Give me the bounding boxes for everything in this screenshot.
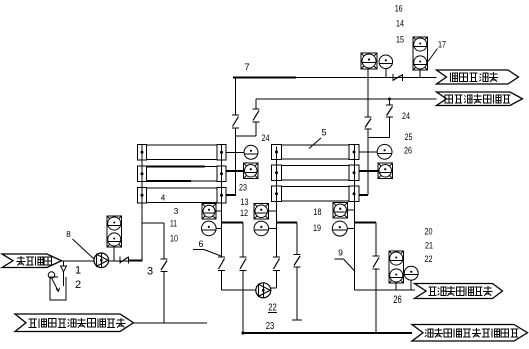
vessel V2 bold top edge [147, 166, 205, 168]
leader for 6 [193, 250, 221, 257]
label 15 [396, 35, 404, 46]
stack D stem [395, 283, 397, 290]
instrument on stage2 row2 tap [378, 163, 393, 179]
arrow into tank [61, 266, 67, 272]
banner2 text [445, 94, 510, 103]
stage2 feed header upper [276, 147, 278, 258]
svg-text:19: 19 [313, 223, 321, 234]
label 12 [240, 208, 248, 219]
stage1 permeate riser to product line [235, 78, 237, 116]
svg-text:8: 8 [66, 230, 71, 239]
pressure gauge on product line [379, 55, 393, 78]
instrument stack A box [202, 204, 216, 220]
label 20 [425, 227, 433, 238]
instrument stack B gauge [254, 221, 269, 236]
stack C gauge stub [347, 228, 354, 230]
svg-text:15: 15 [396, 35, 404, 46]
label 24 right [402, 111, 410, 122]
stack A box stub [216, 210, 222, 212]
membrane vessel V6 (stage 2, row 3) [272, 186, 360, 202]
tee stage1 to drain [222, 222, 244, 224]
svg-text:18: 18 [314, 207, 322, 218]
stack B gauge stub [269, 227, 277, 229]
instrument stack C box [333, 203, 348, 219]
stage1 row3 tap line [227, 194, 237, 196]
riser from second product line (right) [389, 99, 391, 105]
feed gauges stem [113, 247, 115, 261]
svg-text:16: 16 [395, 4, 403, 15]
to concentrate recovery banner [415, 284, 503, 299]
stem of instrument 17 [419, 70, 421, 78]
label 3 small [174, 206, 179, 216]
label 22 underlined [268, 303, 277, 314]
product line 7 [296, 77, 437, 79]
instrument stack B box [254, 204, 269, 220]
check valve on product line [393, 74, 403, 81]
inlet banner (low-temp water in) [2, 254, 62, 268]
leader for 8 [73, 239, 95, 259]
leader for 17 [428, 49, 438, 62]
svg-text:3: 3 [174, 206, 179, 216]
stack A gauge stub [216, 227, 221, 229]
svg-text:6: 6 [198, 239, 203, 249]
svg-text:24: 24 [402, 111, 410, 122]
label 10 [170, 234, 178, 245]
label 25 right [405, 132, 413, 143]
valve on drain x376 [373, 256, 380, 269]
interstage pump 22 [256, 283, 271, 298]
junction dot on second product line [388, 98, 391, 101]
feed gauges stack [107, 216, 122, 247]
membrane vessel V2 (stage 1, row 2) [138, 166, 227, 182]
svg-text:21: 21 [425, 241, 433, 252]
label 1 [75, 265, 81, 277]
valve on stage2 feed header [273, 257, 280, 271]
capped drain lower [296, 267, 298, 320]
cap at drain end [292, 319, 302, 321]
instrument on stage1 row2 tap [244, 163, 259, 179]
drain line x376 upper [375, 223, 377, 257]
label 6 [198, 239, 203, 249]
riser from second product line (left) [255, 99, 257, 109]
gauge by stack D [404, 266, 418, 280]
stage1 concentrate header upper [221, 145, 223, 258]
bottom return line [243, 332, 412, 334]
to desalted water pool banner [437, 70, 519, 84]
svg-text:13: 13 [241, 197, 249, 208]
stage2 row3 tap line [359, 194, 369, 196]
membrane vessel V4 (stage 2, row 1) [272, 145, 360, 160]
banner1 text [450, 72, 498, 82]
instrument stack A gauge [202, 221, 217, 236]
to chemical clean tank banner [437, 92, 523, 106]
stage1 permeate node [236, 135, 257, 137]
svg-text:26: 26 [393, 294, 402, 306]
label 11 [170, 219, 177, 230]
label 9 [338, 248, 343, 258]
stage1 conc elbow to pump [222, 271, 256, 291]
svg-text:9: 9 [338, 248, 343, 258]
svg-text:7: 7 [244, 62, 249, 73]
label 7 [244, 62, 249, 73]
label 18 [314, 207, 322, 218]
valve on stage1 permeate riser [232, 115, 239, 128]
valve on right second riser [386, 105, 393, 117]
stage2 conc elbow [355, 289, 416, 291]
flow indicator on product line [361, 53, 377, 69]
clean drain vertical lower [163, 272, 165, 323]
chemical clean inlet banner text [29, 318, 126, 328]
clean drain vertical upper [163, 223, 165, 259]
gauge D stem [410, 280, 412, 290]
svg-text:1: 1 [75, 265, 81, 277]
stage2 row1 tap line [359, 151, 378, 153]
svg-text:4: 4 [161, 194, 166, 203]
tee stage2feed to capped drain [277, 222, 298, 224]
valve on capped drain [294, 255, 301, 268]
svg-text:23: 23 [266, 320, 275, 332]
label 21 [425, 241, 433, 252]
label 4 [161, 194, 166, 203]
label 5 [321, 128, 326, 138]
stage2 row2 tap line [359, 170, 379, 172]
tee stage2conc to drain [355, 222, 377, 224]
membrane vessel V5 (stage 2, row 2) [272, 165, 360, 181]
stage2 feed header lower [276, 271, 278, 289]
svg-text:26: 26 [404, 146, 412, 157]
label 24 left [262, 133, 270, 144]
stage1 concentrate header lower [221, 271, 223, 291]
banner3 text [429, 286, 493, 296]
stage1 row1 tap line [227, 151, 245, 153]
svg-text:11: 11 [170, 219, 177, 230]
valve on stage1 concentrate drop [218, 257, 225, 271]
junction dot bottom left [241, 331, 244, 334]
label 19 [313, 223, 321, 234]
valve on left second riser [253, 109, 260, 122]
label 16 [395, 4, 403, 15]
label 17 [438, 40, 446, 51]
label 2 [75, 279, 81, 291]
clean inlet line [134, 322, 208, 324]
left second riser lower [255, 122, 257, 136]
svg-text:22: 22 [425, 254, 433, 265]
instrument stack D [389, 251, 404, 283]
dosing tank [50, 277, 66, 300]
svg-text:14: 14 [396, 19, 404, 30]
label 3 big [147, 266, 153, 278]
label 23 small [239, 183, 247, 194]
stage2 permeate header [367, 129, 369, 195]
product line 7 bold segment [233, 77, 296, 79]
stage1 permeate header [235, 128, 237, 195]
stage2 permeate riser to product line [367, 69, 369, 117]
valve 3 on clean drain [161, 259, 168, 272]
second product line [256, 98, 437, 100]
drain line x243 upper [242, 223, 244, 258]
svg-text:17: 17 [438, 40, 446, 51]
banner4 text [425, 328, 518, 337]
capped drain upper [296, 223, 298, 255]
svg-text:24: 24 [262, 133, 270, 144]
tank inner pipe [63, 272, 65, 286]
valve on drain x243 [240, 257, 247, 271]
drain line x243 lower [242, 271, 244, 334]
leader for 5 [309, 138, 321, 149]
to chemical clean return banner [412, 325, 528, 342]
feed pump discharge [109, 260, 129, 262]
drain line x376 lower [375, 269, 377, 333]
leader for 9 [335, 259, 356, 272]
chemical clean inlet banner [15, 314, 134, 332]
label 14 [396, 19, 404, 30]
svg-text:10: 10 [170, 234, 178, 245]
stack B box stub [269, 210, 277, 212]
label 26 big [393, 294, 402, 306]
gauge on stage2 row1 tap [377, 144, 392, 159]
stage2 permeate node [368, 137, 390, 139]
membrane vessel V3 (stage 1, row 3) [138, 188, 227, 204]
svg-text:20: 20 [425, 227, 433, 238]
label 23 [266, 320, 275, 332]
stack C box stub [348, 209, 355, 211]
membrane vessel V1 (stage 1, row 1) [138, 145, 227, 161]
instrument stack C gauge [332, 221, 347, 236]
stage2 concentrate header [354, 145, 356, 291]
label 26 small [404, 146, 412, 157]
feed line from inlet banner [62, 260, 95, 262]
inlet banner text [17, 256, 52, 265]
label 22 small [425, 254, 433, 265]
dosing diagonal [52, 279, 60, 292]
valve on stage2 permeate riser [365, 117, 372, 129]
dosing pump circle [48, 272, 55, 279]
svg-text:22: 22 [268, 303, 277, 314]
feed drop line to tank [63, 261, 65, 266]
clean-water stub from feed riser [142, 222, 164, 224]
svg-text:12: 12 [240, 208, 248, 219]
vessel V2 bold bottom edge [147, 180, 191, 182]
label 13 [241, 197, 249, 208]
pump discharge elbow [271, 287, 277, 289]
feed pump 8 [94, 253, 109, 268]
check valve after feed pump [120, 256, 129, 263]
svg-text:5: 5 [321, 128, 326, 138]
svg-text:25: 25 [405, 132, 413, 143]
stage1 feed header [141, 145, 143, 261]
gauge on stage1 row1 tap [244, 145, 258, 159]
svg-text:23: 23 [239, 183, 247, 194]
label 8 [66, 230, 71, 239]
dosing instrument 17 [413, 37, 428, 70]
svg-text:3: 3 [147, 266, 153, 278]
stage1 row2 tap line [227, 170, 244, 172]
svg-text:2: 2 [75, 279, 81, 291]
feed pump discharge bold [129, 260, 143, 262]
right second riser lower [389, 117, 391, 138]
